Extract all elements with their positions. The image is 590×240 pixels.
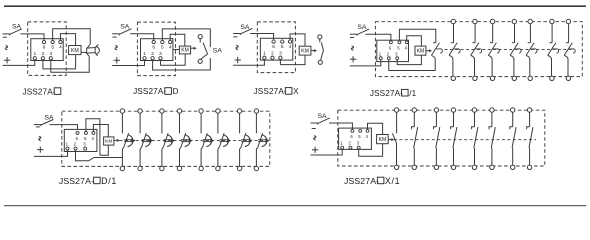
pin 2 (D1) <box>41 57 44 60</box>
wire pin2 to first contact bottom (D5) <box>76 150 123 161</box>
delayed contact (D4 contact K5) <box>528 42 531 44</box>
svg-text:KM: KM <box>301 48 309 54</box>
svg-text:2: 2 <box>271 51 274 57</box>
svg-text:KM: KM <box>379 137 387 143</box>
wire bottom lead col 4 (D6) <box>452 147 455 165</box>
output contact column 8 bottom terminal (D5) <box>254 166 258 170</box>
wire pin2 to first contact bottom (D4) <box>389 59 435 71</box>
wire top lead col 1 (D5) <box>121 113 123 133</box>
output contact column 6 bottom terminal (D6) <box>490 165 494 169</box>
svg-text:1: 1 <box>66 142 69 147</box>
pin 5 (D4) <box>398 41 401 44</box>
wire bottom lead col 6 (D4) <box>548 55 552 76</box>
KM actuating arrow (D5) <box>114 139 117 141</box>
switch X blade (D3) <box>321 42 324 60</box>
pin 1 (D1) <box>33 57 36 60</box>
D5 supply minus mark <box>36 126 40 128</box>
output contact column 2 top terminal (D5) <box>138 109 142 113</box>
relay socket box U (D5) <box>64 129 97 151</box>
wire bottom to pin1 (D5) <box>34 150 68 156</box>
wire top lead col 5 (D4) <box>529 24 531 43</box>
wire pin3 to delayed contact bottom (D1) <box>51 57 89 73</box>
pin 5 (D3) <box>281 40 284 43</box>
svg-text:JSS27A-: JSS27A- <box>23 87 56 96</box>
wire pin5 over to first contact (D4) <box>399 29 435 43</box>
svg-text:5: 5 <box>358 134 361 139</box>
wire bottom lead col 3 (D6) <box>435 147 438 165</box>
delayed contact (D4 contact K0) <box>433 42 436 44</box>
svg-text:KM: KM <box>71 48 79 54</box>
delayed contact (D4 contact K3) <box>490 42 493 44</box>
wire bottom lead col 2 (D5) <box>140 147 142 166</box>
pin 2 (D2) <box>151 57 154 60</box>
wire pin2 to KM bottom (D1) <box>43 55 76 69</box>
wire pin3 to KM bottom (D4) <box>397 55 421 64</box>
D1 supply AC mark <box>5 45 7 49</box>
svg-text:5: 5 <box>51 45 54 51</box>
wire bottom to pin1 (D2) <box>112 60 144 66</box>
contactor coil KM (D1) <box>69 46 81 55</box>
svg-text:SA: SA <box>357 24 367 31</box>
pin 4 (D4) <box>405 41 408 44</box>
svg-text:5: 5 <box>84 136 87 141</box>
wire bottom to pin1 (D3) <box>233 60 264 66</box>
svg-text:KM: KM <box>417 48 425 54</box>
wire pin4 to KM top (D1) <box>60 34 75 46</box>
delayed contact with arrow (D5 contact K6) <box>219 133 224 147</box>
output contact column 8 bottom terminal (D6) <box>527 165 531 169</box>
output contact column 5 bottom terminal (D6) <box>472 165 476 169</box>
output contact column 1 top terminal (D5) <box>120 109 124 113</box>
output contact column 8 top terminal (D5) <box>254 109 258 113</box>
output contact column 6 top terminal (D4) <box>550 19 554 23</box>
D1 supply minus mark <box>3 36 7 38</box>
diagram 4 JSS27A-/1 : dashed enclosure <box>375 22 582 77</box>
output contact column 4 top terminal (D4) <box>512 19 516 23</box>
D1 supply plus mark <box>4 59 10 61</box>
wire bottom lead col 1 (D4) <box>449 55 453 76</box>
wire top lead col 6 (D6) <box>491 112 493 127</box>
wire socket to KM left stub (D2) <box>173 49 180 51</box>
delayed contact with arrow (D5 contact K3) <box>163 133 168 147</box>
svg-text:6: 6 <box>76 136 79 141</box>
output contact column 3 top terminal (D5) <box>160 109 164 113</box>
svg-text:5: 5 <box>397 46 400 51</box>
wire pin4 to KM top (D5) <box>93 125 108 137</box>
pin 3 (D1) <box>49 57 52 60</box>
delayed contact (D4 contact K4) <box>512 42 515 44</box>
pin 6 (D6) <box>351 129 354 132</box>
svg-text:5: 5 <box>161 45 164 51</box>
D3 supply plus mark <box>235 59 241 61</box>
bottom rule <box>4 205 586 207</box>
relay socket box U (D2) <box>141 39 173 61</box>
switch SA (D4) <box>350 33 357 35</box>
wire bottom lead col 4 (D5) <box>180 147 182 166</box>
output contact column 1 bottom terminal (D5) <box>120 166 124 170</box>
wire bottom lead col 8 (D5) <box>256 147 258 166</box>
wire bottom lead col 5 (D6) <box>473 147 476 165</box>
output contact column 3 top terminal (D6) <box>434 108 438 112</box>
instantaneous contact (D6 contact K6) <box>489 127 492 130</box>
svg-text:JSS27A-: JSS27A- <box>59 176 94 186</box>
pin 4 (D5) <box>92 131 95 134</box>
svg-text:3: 3 <box>279 51 282 57</box>
output contact column 3 bottom terminal (D4) <box>490 76 494 80</box>
svg-text:4: 4 <box>289 44 292 50</box>
output contact column 7 top terminal (D5) <box>237 109 241 113</box>
wire pin4 to KM top (D6) <box>368 123 383 134</box>
KM actuating arrow (D6) <box>388 139 391 141</box>
pin 3 (D2) <box>159 57 162 60</box>
diagram 1 JSS27A-blank : dashed enclosure <box>28 22 66 76</box>
switch X top terminal (D3) <box>318 35 322 39</box>
wire bottom lead col 6 (D6) <box>490 147 493 165</box>
wire bottom lead col 5 (D4) <box>526 55 530 76</box>
wire bottom lead col 3 (D4) <box>488 55 492 76</box>
output contact column 4 top terminal (D5) <box>177 109 181 113</box>
pin 3 (D6) <box>357 146 360 149</box>
instantaneous contact (D6 contact K7) <box>510 127 513 130</box>
pin 3 (D4) <box>396 57 399 60</box>
switch SA (D2) <box>112 33 119 35</box>
svg-text:1: 1 <box>143 51 146 57</box>
delayed contact (D4 contact K6) <box>549 42 552 44</box>
wire bottom lead col 8 (D6) <box>528 147 531 165</box>
wire top lead col 3 (D5) <box>161 113 163 133</box>
top rule <box>4 5 586 7</box>
wire pin4 to KM top (D3) <box>290 34 305 46</box>
delayed contact (D4 contact K7) <box>566 42 569 44</box>
wire pin4 to KM top (D4) <box>407 36 422 46</box>
D4 supply plus mark <box>350 58 356 60</box>
wire pin3 to KM bottom (D6) <box>359 144 383 157</box>
output contact column 7 top terminal (D4) <box>566 19 570 23</box>
D2 supply minus mark <box>113 36 117 38</box>
wire top lead col 4 (D5) <box>179 113 181 133</box>
svg-text:X: X <box>293 87 299 96</box>
output contact column 8 top terminal (D6) <box>527 108 531 112</box>
wire top to pin6 (D3) <box>250 34 274 40</box>
svg-text:JSS27A-: JSS27A- <box>133 87 166 96</box>
wire KM bottom to rail (D5) <box>100 145 108 155</box>
wire top lead col 8 (D5) <box>255 113 257 133</box>
wire pin3 to KM bottom (D3) <box>280 55 305 65</box>
wire top lead col 2 (D4) <box>474 24 476 43</box>
delayed contact (D4 contact K1) <box>451 42 454 44</box>
svg-text:3: 3 <box>49 51 52 57</box>
switch X bottom terminal (D3) <box>318 60 322 64</box>
wire top lead col 6 (D4) <box>551 24 553 43</box>
pin 1 (D2) <box>143 57 146 60</box>
contactor coil KM (D5) <box>104 137 114 145</box>
output contact column 7 bottom terminal (D4) <box>566 76 570 80</box>
D3 supply minus mark <box>233 36 237 38</box>
D2 supply plus mark <box>114 59 120 61</box>
wire bottom to pin1 (D6) <box>311 149 343 155</box>
output contact column 7 bottom terminal (D5) <box>237 166 241 170</box>
wire top lead col 6 (D5) <box>217 113 219 133</box>
wire top to pin6 (D2) <box>130 34 154 41</box>
D6 supply plus mark <box>312 149 318 151</box>
output contact column 6 top terminal (D6) <box>490 108 494 112</box>
svg-text:4: 4 <box>405 46 408 51</box>
switch SA (D5) <box>34 124 41 126</box>
wire top lead col 3 (D6) <box>435 112 437 127</box>
instantaneous contact (D6 contact K4) <box>451 127 454 130</box>
switch SA2 bottom terminal (D2) <box>198 59 202 63</box>
output contact column 2 bottom terminal (D5) <box>138 166 142 170</box>
pin 5 (D5) <box>84 131 87 134</box>
KM actuating arrow (D4) <box>426 50 429 52</box>
D5 supply AC mark <box>39 136 41 140</box>
svg-text:6: 6 <box>389 46 392 51</box>
pin 4 (D3) <box>288 40 291 43</box>
wire bottom lead col 6 (D5) <box>218 147 220 166</box>
svg-text:3: 3 <box>159 51 162 57</box>
pin 1 (D6) <box>341 146 344 149</box>
pin 6 (D1) <box>42 40 45 43</box>
relay socket box U (D3) <box>260 38 292 60</box>
D3 supply AC mark <box>236 45 238 49</box>
svg-text:D: D <box>173 87 179 96</box>
relay socket box U (D4) <box>377 40 409 61</box>
svg-text:3: 3 <box>357 141 360 146</box>
wire bottom lead col 7 (D5) <box>240 147 242 166</box>
pin 6 (D4) <box>389 41 392 44</box>
switch SA (D3) <box>233 33 240 35</box>
svg-text:6: 6 <box>152 45 155 51</box>
pin 6 (D3) <box>272 40 275 43</box>
switch SA (D6) <box>311 122 318 124</box>
output contact column 5 top terminal (D6) <box>472 108 476 112</box>
wire top lead col 8 (D6) <box>529 112 531 127</box>
svg-text:JSS27A-: JSS27A- <box>344 176 379 186</box>
delayed contact (D4 contact K2) <box>472 42 475 44</box>
svg-text:4: 4 <box>59 45 62 51</box>
pin 6 (D2) <box>152 40 155 43</box>
wire bottom to pin1 (D1) <box>3 60 35 66</box>
diagram 2 JSS27A-D : dashed enclosure <box>137 22 175 76</box>
wire top lead col 4 (D4) <box>514 24 516 43</box>
switch SA2 blade (D2) <box>203 43 208 54</box>
svg-text:1: 1 <box>379 51 382 56</box>
output contact column 6 bottom terminal (D5) <box>216 166 220 170</box>
svg-text:SA: SA <box>240 24 250 31</box>
svg-text:SA: SA <box>318 113 328 120</box>
svg-text:2: 2 <box>74 142 77 147</box>
output contact column 1 bottom terminal (D4) <box>451 76 455 80</box>
wire top to pin6 (D5) <box>50 125 78 130</box>
output contact column 4 top terminal (D6) <box>451 108 455 112</box>
contactor coil KM (D2) <box>179 46 190 54</box>
diagram 6 JSS27A-X/1 : dashed enclosure <box>338 110 545 166</box>
svg-text:SA: SA <box>45 115 55 122</box>
svg-text:SA: SA <box>12 23 22 30</box>
output contact column 5 top terminal (D4) <box>528 19 532 23</box>
svg-text:/1: /1 <box>409 89 416 98</box>
D4 supply AC mark <box>351 46 353 50</box>
wire top lead col 5 (D5) <box>200 113 202 133</box>
svg-text:SA: SA <box>213 47 223 54</box>
D6 supply minus mark <box>312 128 316 130</box>
instantaneous contact (D6 contact K5) <box>472 127 475 130</box>
wire pin5 over to SA2 loop (D2) <box>162 29 210 47</box>
instantaneous contact (D6 contact K8) <box>527 127 530 130</box>
svg-text:2: 2 <box>387 51 390 56</box>
wire top lead col 7 (D5) <box>239 113 241 133</box>
relay socket box U (D1) <box>31 39 63 61</box>
wire top lead col 1 (D4) <box>453 24 455 43</box>
output contact column 3 top terminal (D4) <box>490 19 494 23</box>
svg-text:D/1: D/1 <box>101 176 117 186</box>
D5 supply plus mark <box>37 149 43 151</box>
wire bottom lead col 7 (D4) <box>564 55 568 76</box>
delayed contact with arrow (D5 contact K8) <box>258 133 263 147</box>
D4 supply minus mark <box>350 37 354 39</box>
output contact column 6 top terminal (D5) <box>216 109 220 113</box>
D6 supply AC mark <box>314 136 316 140</box>
svg-text:4: 4 <box>366 134 369 139</box>
output contact column 2 top terminal (D4) <box>473 19 477 23</box>
wire KM right lead (D1) <box>81 51 87 53</box>
svg-text:4: 4 <box>169 45 172 51</box>
switch SA (D1) <box>3 33 10 35</box>
wire bottom lead col 7 (D6) <box>511 147 514 165</box>
delayed contact with arrow (D5 contact K1) <box>124 133 129 147</box>
wire pin5 loop to KM bottom rail (D5) <box>86 119 100 156</box>
output contact column 4 bottom terminal (D6) <box>451 165 455 169</box>
wire top lead col 2 (D6) <box>413 112 415 127</box>
output contact column 5 bottom terminal (D5) <box>199 166 203 170</box>
wire bottom lead col 4 (D4) <box>510 55 514 76</box>
instantaneous contact (D6 contact K2) <box>411 127 414 130</box>
svg-text:SA: SA <box>120 23 130 30</box>
delayed bridge contact (D1) <box>87 44 90 48</box>
svg-text:1: 1 <box>263 51 266 57</box>
pin 3 (D3) <box>279 56 282 59</box>
pin 2 (D3) <box>271 56 274 59</box>
svg-text:6: 6 <box>43 45 46 51</box>
delayed contact with arrow (D5 contact K4) <box>181 133 186 147</box>
svg-text:5: 5 <box>281 44 284 50</box>
wire top lead col 3 (D4) <box>492 24 494 43</box>
output contact column 3 bottom terminal (D6) <box>434 165 438 169</box>
output contact column 2 bottom terminal (D4) <box>473 76 477 80</box>
mechanical linkage dash line (D4) <box>445 48 572 50</box>
svg-text:6: 6 <box>272 44 275 50</box>
pin 4 (D2) <box>169 40 172 43</box>
instantaneous contact (D6 contact K3) <box>434 127 437 130</box>
output contact column 5 top terminal (D5) <box>199 109 203 113</box>
delayed contact with arrow (D5 contact K2) <box>142 133 147 147</box>
output contact column 3 bottom terminal (D5) <box>160 166 164 170</box>
wire top lead col 4 (D6) <box>453 112 455 127</box>
pin 2 (D5) <box>74 147 77 150</box>
svg-text:3: 3 <box>83 142 86 147</box>
wire top lead col 7 (D6) <box>512 112 514 127</box>
output contact column 2 top terminal (D6) <box>412 108 416 112</box>
svg-text:X/1: X/1 <box>385 176 400 186</box>
KM actuating arrow (D2) <box>191 47 194 49</box>
wire pin2 to SA2 loop bottom (D2) <box>153 58 211 70</box>
mechanical linkage dash line (D6) <box>394 139 536 141</box>
first contact column with KM arrow (D6) <box>394 108 398 112</box>
pin 1 (D4) <box>379 57 382 60</box>
pin 1 (D5) <box>66 147 69 150</box>
svg-text:KM: KM <box>181 48 189 54</box>
wire pin5 to delayed contact top (D1) <box>53 29 91 45</box>
wire top lead col 7 (D4) <box>568 24 570 43</box>
output contact column 5 bottom terminal (D4) <box>528 76 532 80</box>
pin 4 (D1) <box>59 40 62 43</box>
svg-text:1: 1 <box>33 51 36 57</box>
wire bottom lead col 2 (D4) <box>471 55 475 76</box>
pin 5 (D1) <box>51 40 54 43</box>
pin 5 (D6) <box>359 129 362 132</box>
pin 6 (D5) <box>76 131 79 134</box>
wire top to pin6 (D6) <box>329 123 352 129</box>
contactor coil KM (D6) <box>377 135 389 144</box>
mechanical linkage dash line (D5) <box>120 140 267 142</box>
svg-text:2: 2 <box>348 141 351 146</box>
wire bottom lead col 3 (D5) <box>162 147 164 166</box>
delayed contact with arrow (D5 contact K7) <box>241 133 246 147</box>
output contact column 7 bottom terminal (D6) <box>511 165 515 169</box>
svg-text:6: 6 <box>350 134 353 139</box>
relay socket box U (D6) <box>339 128 372 149</box>
svg-text:JSS27A-: JSS27A- <box>370 89 403 98</box>
output contact column 4 bottom terminal (D5) <box>177 166 181 170</box>
wire pin4 to KM top (D2) <box>170 34 185 46</box>
output contact column 6 bottom terminal (D4) <box>550 76 554 80</box>
output contact column 7 top terminal (D6) <box>511 108 515 112</box>
wire pin3 to KM bottom (D2) <box>161 54 186 65</box>
output contact column 1 top terminal (D4) <box>451 19 455 23</box>
wire top to pin6 (D4) <box>366 34 391 41</box>
wire top to pin6 (D1) <box>21 34 45 40</box>
pin 4 (D6) <box>366 129 369 132</box>
pin 5 (D2) <box>161 40 164 43</box>
delayed contact with arrow (D5 contact K5) <box>203 133 208 147</box>
D2 supply AC mark <box>115 45 117 49</box>
svg-text:2: 2 <box>42 51 45 57</box>
svg-text:1: 1 <box>340 141 343 146</box>
output contact column 4 bottom terminal (D4) <box>512 76 516 80</box>
svg-text:KM: KM <box>105 139 112 145</box>
pin 2 (D6) <box>349 146 352 149</box>
wire bottom lead col 5 (D5) <box>201 147 203 166</box>
contactor coil KM (D4) <box>415 46 426 55</box>
pin 1 (D3) <box>263 56 266 59</box>
pin 3 (D5) <box>84 147 87 150</box>
KM actuating arrow (D3) <box>311 50 314 52</box>
switch SA2 top terminal (D2) <box>198 35 202 39</box>
svg-text:3: 3 <box>395 51 398 56</box>
diagram 3 JSS27A-X : dashed enclosure <box>257 22 295 73</box>
diagram 5 JSS27A-D/1 : dashed enclosure <box>62 111 270 166</box>
svg-text:2: 2 <box>151 51 154 57</box>
wire bottom to pin1 (D4) <box>350 60 381 66</box>
pin 2 (D4) <box>387 57 390 60</box>
wire bottom lead col 2 (D6) <box>413 147 416 165</box>
wire top lead col 5 (D6) <box>474 112 476 127</box>
wire top lead col 2 (D5) <box>139 113 141 133</box>
svg-text:4: 4 <box>92 136 95 141</box>
wire bottom lead col 1 (D5) <box>122 147 124 166</box>
svg-text:JSS27A-: JSS27A- <box>254 87 287 96</box>
contactor coil KM (D3) <box>299 46 311 55</box>
